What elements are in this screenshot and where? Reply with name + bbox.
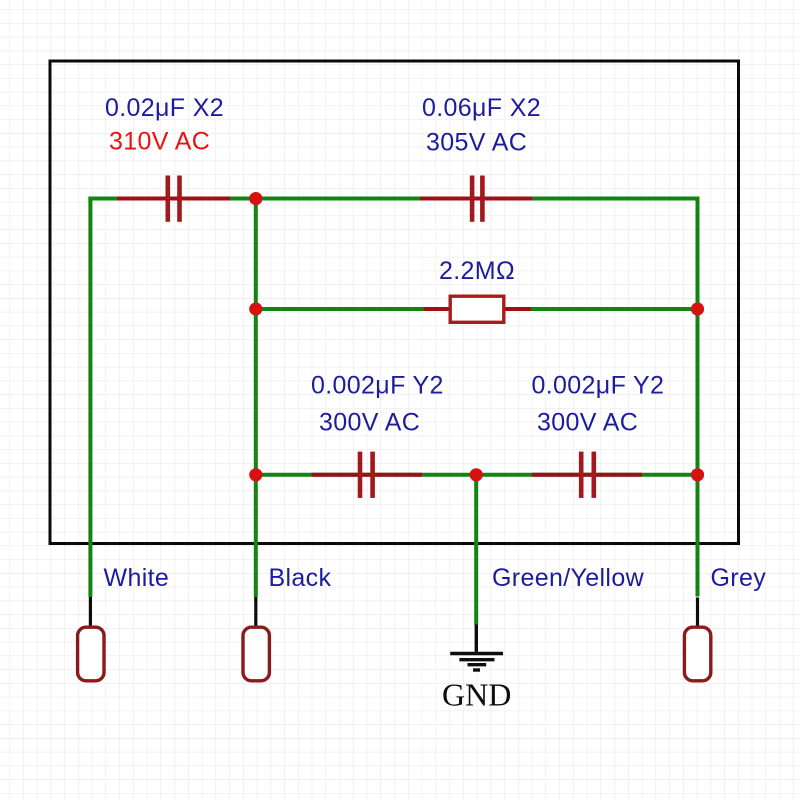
resistor R1 2.2MOhm bbox=[424, 296, 532, 322]
wire: right vertical (Grey net) bbox=[696, 197, 700, 597]
ground symbol bbox=[450, 654, 503, 671]
svg-text:Black: Black bbox=[269, 564, 332, 592]
node junction row1 at x=256 bbox=[249, 192, 262, 205]
wire: row 2 horizontal bbox=[256, 307, 698, 311]
terminal White bbox=[78, 627, 104, 681]
terminal Black bbox=[243, 627, 269, 681]
terminal Grey bbox=[684, 627, 710, 681]
capacitor C1 0.02uF X2 bbox=[117, 176, 230, 222]
wire: row 3 horizontal bbox=[256, 473, 698, 477]
node junction row3 middle bbox=[470, 468, 483, 481]
svg-text:0.06μF X2: 0.06μF X2 bbox=[422, 94, 541, 122]
svg-text:Green/Yellow: Green/Yellow bbox=[492, 564, 645, 592]
wire: black lead to ground bbox=[475, 625, 478, 654]
svg-text:White: White bbox=[104, 564, 170, 592]
svg-text:0.02μF X2: 0.02μF X2 bbox=[105, 94, 224, 122]
node junction row3 right bbox=[691, 468, 704, 481]
wire: second vertical (Black net) bbox=[254, 199, 258, 598]
wire: left vertical (White net) bbox=[88, 199, 92, 598]
svg-text:0.002μF Y2: 0.002μF Y2 bbox=[311, 372, 444, 400]
wire: middle vertical (Green/Yellow net) bbox=[474, 475, 478, 625]
svg-text:310V AC: 310V AC bbox=[109, 128, 210, 156]
wire: top horizontal row 1 bbox=[88, 197, 699, 201]
svg-text:300V AC: 300V AC bbox=[319, 409, 420, 437]
svg-text:305V AC: 305V AC bbox=[426, 129, 527, 157]
node junction row2 right bbox=[691, 302, 704, 315]
capacitor C4 0.002uF Y2 bbox=[532, 452, 642, 498]
node junction row3 left bbox=[249, 468, 262, 481]
svg-text:0.002μF Y2: 0.002μF Y2 bbox=[532, 372, 665, 400]
wire: black lead to White terminal bbox=[89, 597, 92, 628]
node junction row2 left bbox=[249, 302, 262, 315]
capacitor C3 0.002uF Y2 bbox=[312, 452, 422, 498]
wire: black lead to Black terminal bbox=[254, 597, 257, 628]
wire: black lead to Grey terminal bbox=[696, 598, 699, 629]
capacitor C2 0.06uF X2 bbox=[420, 176, 533, 222]
svg-text:300V AC: 300V AC bbox=[537, 409, 638, 437]
enclosure box bbox=[50, 61, 739, 544]
svg-text:Grey: Grey bbox=[711, 564, 767, 592]
svg-text:GND: GND bbox=[442, 677, 511, 713]
svg-text:2.2MΩ: 2.2MΩ bbox=[439, 257, 515, 285]
